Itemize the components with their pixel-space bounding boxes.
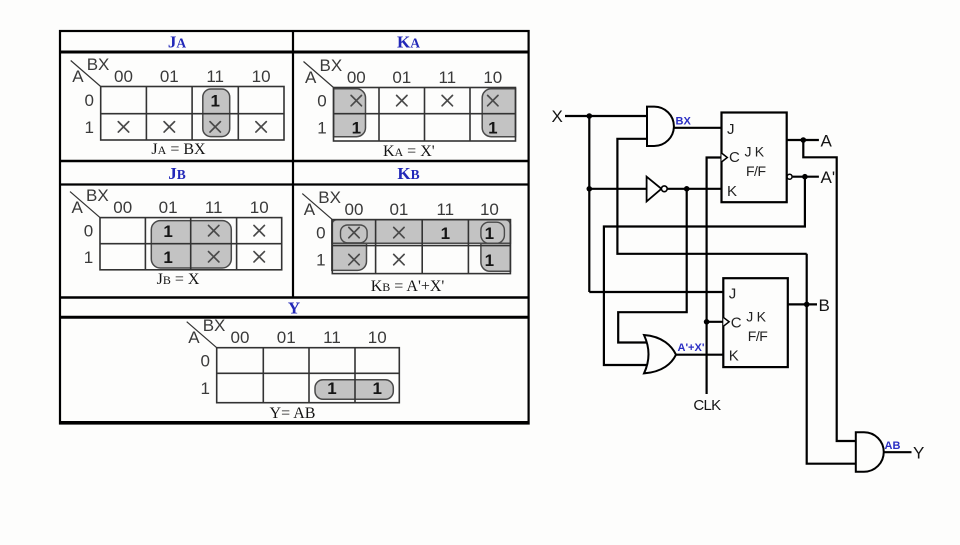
K-map KA: shaded group(s): [334, 89, 366, 137]
svg-text:F/F: F/F: [746, 163, 766, 179]
svg-text:BX: BX: [203, 316, 226, 335]
svg-text:A: A: [72, 198, 84, 217]
svg-text:1: 1: [485, 251, 494, 270]
wire AND output to Y: [884, 451, 912, 453]
svg-text:1: 1: [84, 118, 93, 137]
svg-text:A: A: [72, 67, 84, 86]
svg-text:11: 11: [438, 68, 456, 87]
svg-text:Y= AB: Y= AB: [270, 405, 316, 422]
wire B to AND gate G3 lower input: [807, 254, 856, 464]
svg-text:Y: Y: [913, 444, 924, 463]
svg-text:10: 10: [368, 328, 387, 347]
svg-text:J K: J K: [746, 309, 766, 325]
svg-text:KB = A'+X': KB = A'+X': [371, 278, 445, 295]
table row lines: [60, 51, 529, 54]
K-map KB: shaded group(s): [332, 220, 367, 271]
svg-text:Y: Y: [288, 299, 300, 318]
wire OR output to K of U2: [676, 354, 723, 356]
svg-text:00: 00: [113, 198, 132, 217]
K-map Y axis labels: [187, 322, 217, 348]
K-map KB grid: [332, 220, 510, 274]
svg-text:J: J: [727, 121, 735, 138]
junction A tap: [801, 137, 807, 143]
junction X tap to inverter: [587, 186, 593, 192]
svg-text:A: A: [305, 68, 317, 87]
K-map KB cell entries: [349, 227, 359, 237]
table outer border: [60, 31, 529, 424]
wire Q of U1 to node A: [787, 139, 819, 141]
K-map KA grid: [334, 88, 516, 142]
svg-text:11: 11: [206, 67, 224, 86]
junction B tap: [804, 302, 810, 308]
wire CLK vertical: [707, 158, 722, 395]
K-map JB: shaded group(s): [151, 221, 231, 268]
wire B feedback to AND gate G1 lower input: [617, 139, 806, 254]
K-map KB axis labels: [302, 194, 332, 220]
wire A to AND gate G3 top input: [803, 140, 856, 441]
wire Q of U2 to node B: [788, 303, 817, 305]
svg-text:1: 1: [163, 248, 172, 267]
wire X vertical run: [588, 116, 590, 292]
junction A' tap: [802, 174, 808, 180]
svg-text:10: 10: [483, 68, 502, 87]
svg-text:01: 01: [392, 68, 411, 87]
svg-text:00: 00: [114, 67, 133, 86]
wire X to J input of U2: [589, 291, 723, 293]
svg-text:K: K: [729, 348, 739, 365]
svg-text:11: 11: [323, 328, 341, 347]
svg-text:1: 1: [200, 379, 209, 398]
K-map Y: shaded group(s): [315, 380, 393, 400]
K-map KA axis labels: [304, 62, 334, 88]
inverter U3 (X'): [647, 177, 662, 202]
svg-text:01: 01: [160, 67, 179, 86]
svg-text:JA: JA: [168, 33, 187, 52]
svg-text:KA = X': KA = X': [383, 143, 435, 160]
svg-text:K: K: [727, 183, 737, 200]
K-map Y grid: [217, 348, 400, 403]
K-map JA axis labels: [71, 61, 101, 87]
svg-text:00: 00: [345, 200, 364, 219]
junction X tap: [587, 113, 593, 119]
svg-text:JB = X: JB = X: [157, 271, 200, 288]
svg-text:BX: BX: [320, 56, 343, 75]
svg-text:00: 00: [231, 328, 250, 347]
svg-text:A': A': [821, 168, 836, 187]
svg-text:CLK: CLK: [693, 397, 721, 414]
or-gate G2 (A'+X'): [644, 335, 676, 373]
K-map JB grid: [100, 218, 282, 270]
K-map JA: shaded group(s): [203, 89, 230, 137]
svg-text:10: 10: [252, 67, 271, 86]
wire inverter output X' to K of U1: [667, 188, 721, 190]
wire X' feedback to OR gate G2 top input: [618, 189, 687, 343]
svg-text:1: 1: [488, 119, 497, 138]
svg-text:1: 1: [352, 119, 361, 138]
svg-text:1: 1: [327, 379, 336, 398]
wire A' feedback to OR gate G2 lower input: [604, 177, 805, 365]
svg-text:0: 0: [317, 92, 326, 111]
svg-text:BX: BX: [87, 55, 110, 74]
svg-text:B: B: [819, 296, 830, 315]
svg-text:KA: KA: [397, 33, 420, 52]
wire CLK to C of U2: [707, 321, 724, 323]
K-map JA grid: [101, 87, 284, 141]
svg-text:C: C: [731, 315, 742, 332]
svg-text:01: 01: [277, 328, 296, 347]
svg-text:00: 00: [347, 68, 366, 87]
svg-text:J: J: [729, 286, 737, 303]
svg-text:01: 01: [389, 200, 408, 219]
Q' bubble of U1: [787, 174, 792, 179]
svg-text:11: 11: [205, 198, 223, 217]
svg-text:1: 1: [317, 118, 326, 137]
svg-text:1: 1: [84, 248, 93, 267]
flip-flop U2 (B): [723, 278, 788, 367]
svg-text:1: 1: [485, 224, 494, 243]
svg-text:A'+X': A'+X': [678, 342, 705, 354]
svg-text:C: C: [729, 149, 740, 166]
svg-text:10: 10: [480, 200, 499, 219]
svg-text:11: 11: [436, 200, 454, 219]
wire X to inverter input: [589, 188, 646, 190]
junction CLK tap to U2: [704, 319, 710, 325]
svg-text:BX: BX: [676, 116, 692, 128]
svg-text:0: 0: [84, 222, 93, 241]
and-gate G3 (AB): [856, 432, 884, 472]
K-map KB inner group ring: [481, 222, 505, 243]
svg-text:JB: JB: [168, 164, 186, 183]
svg-text:0: 0: [200, 352, 209, 371]
svg-text:01: 01: [159, 198, 178, 217]
svg-text:X: X: [552, 107, 563, 126]
svg-text:0: 0: [316, 224, 325, 243]
wire BX to J of U1: [674, 127, 722, 129]
svg-text:A: A: [304, 200, 316, 219]
svg-text:A: A: [188, 328, 200, 347]
junction X' tap: [684, 186, 690, 192]
svg-text:10: 10: [250, 198, 269, 217]
table column divider: [292, 31, 294, 298]
svg-text:JA = BX: JA = BX: [151, 141, 206, 158]
K-map KB inner group ring: [341, 225, 368, 243]
svg-text:BX: BX: [86, 186, 109, 205]
wire X input to AND gate G1 top input: [565, 115, 647, 117]
and-gate G1 (BX): [647, 107, 674, 146]
svg-text:1: 1: [441, 224, 450, 243]
svg-text:F/F: F/F: [748, 328, 768, 344]
K-map KA cell entries: [351, 95, 361, 105]
svg-text:0: 0: [84, 91, 93, 110]
svg-text:1: 1: [210, 91, 219, 110]
svg-text:1: 1: [316, 251, 325, 270]
flip-flop U1 (A): [722, 113, 787, 203]
svg-text:A: A: [821, 132, 833, 151]
wire Q' of U1 to node A': [793, 176, 819, 178]
svg-text:AB: AB: [885, 440, 901, 452]
svg-text:1: 1: [372, 379, 381, 398]
svg-text:J K: J K: [745, 144, 765, 160]
K-map JB axis labels: [70, 192, 100, 218]
svg-text:KB: KB: [397, 164, 419, 183]
svg-text:1: 1: [163, 222, 172, 241]
svg-text:BX: BX: [318, 188, 341, 207]
